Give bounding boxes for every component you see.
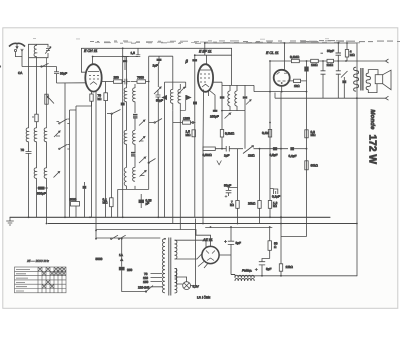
- junction J34: [148, 81, 150, 83]
- junction J40: [280, 216, 282, 218]
- wire bottom bus: [238, 275, 357, 277]
- bracket: [165, 81, 186, 83]
- coil L2a: [26, 128, 28, 142]
- wire az11 cathode top: [196, 230, 211, 247]
- resistor 7500: [137, 80, 146, 84]
- wire V3 top feed: [284, 43, 286, 70]
- core blob 2: [131, 153, 136, 156]
- svg-text:1MΩ: 1MΩ: [311, 63, 318, 67]
- capacitor 50uF: [226, 188, 238, 197]
- junction J14: [221, 110, 223, 112]
- capacitor grid top: [123, 60, 127, 62]
- wire AF line: [215, 148, 288, 150]
- wire x245: [244, 111, 246, 149]
- pilot lamp: [183, 282, 191, 290]
- junction J19: [122, 216, 124, 218]
- junction J9: [322, 60, 324, 62]
- wire top bus T1: [205, 43, 357, 276]
- wire V2 screen feed: [204, 43, 206, 55]
- junction J13: [269, 91, 271, 93]
- power transformer: [162, 238, 177, 296]
- ground: [7, 217, 14, 225]
- coil LO2b: [133, 130, 135, 144]
- wire bus B4: [206, 227, 273, 229]
- junction J28: [210, 226, 212, 228]
- pot R osc: [45, 94, 48, 104]
- tube V1 ECH11: [85, 64, 101, 91]
- capacitor 8uF no1: [224, 228, 234, 275]
- wire band line: [22, 58, 57, 67]
- capacitor 50uF cath blob: [304, 67, 308, 72]
- svg-text:8µF: 8µF: [266, 267, 272, 271]
- wire grid V1: [81, 48, 85, 72]
- svg-text:70: 70: [21, 148, 25, 152]
- transformer taps: [151, 273, 163, 286]
- wire anode row: [102, 81, 114, 83]
- wire V2 plate: [213, 82, 222, 110]
- coil L2c: [44, 128, 46, 142]
- tube V3 ECL11: [274, 70, 290, 86]
- svg-text:30pF: 30pF: [60, 72, 67, 76]
- wire top bus T2: [81, 47, 231, 49]
- wire x259 branch: [259, 149, 261, 224]
- terminal chevron out2: [386, 96, 389, 100]
- capacitor 8uF no2: [255, 259, 270, 276]
- switch S2a: [60, 119, 67, 123]
- tube V2 EBF11: [198, 55, 213, 92]
- coil T2b: [235, 85, 237, 110]
- svg-text:MΩ: MΩ: [311, 133, 317, 137]
- svg-text:100pF: 100pF: [210, 115, 219, 119]
- svg-text:Feldsp.: Feldsp.: [242, 269, 252, 273]
- antenna: [9, 43, 25, 46]
- switch S2b: [60, 145, 67, 149]
- svg-text:172 W: 172 W: [367, 135, 378, 165]
- wire x237 branch: [237, 149, 239, 224]
- svg-text:220-240: 220-240: [138, 285, 150, 289]
- svg-text:5060: 5060: [70, 198, 77, 202]
- junction J33: [269, 122, 271, 124]
- resistor 1M on y61: [311, 59, 319, 62]
- svg-text:1kΩ: 1kΩ: [294, 84, 300, 88]
- svg-text:β: β: [185, 59, 189, 64]
- trimmer T2 low: [225, 113, 231, 119]
- top speckle band: [33, 39, 400, 44]
- junction J18: [89, 216, 91, 218]
- junction J6: [194, 54, 196, 56]
- trimmer osc5: [140, 171, 147, 177]
- svg-text:kΩ: kΩ: [230, 203, 235, 207]
- junction J23: [202, 223, 204, 225]
- resistor 20k: [258, 201, 261, 209]
- junction J35: [122, 56, 124, 58]
- junction J5: [346, 42, 348, 44]
- trimmer osc3: [139, 137, 145, 143]
- svg-text:8µF: 8µF: [236, 241, 242, 245]
- potentiometer 1M arrow: [243, 146, 254, 154]
- junction J30: [164, 238, 166, 240]
- junction J15: [306, 91, 308, 93]
- resistor 60k: [305, 161, 308, 170]
- secondary HT: [175, 240, 177, 259]
- core arrow T1a: [162, 96, 166, 100]
- coil T1b: [178, 84, 180, 230]
- junction J24: [237, 223, 239, 225]
- text model name: [367, 110, 378, 165]
- resistor 12k: [279, 264, 282, 271]
- switch S4: [155, 119, 162, 123]
- junction J2: [204, 42, 206, 44]
- capacitor series: [122, 79, 130, 85]
- capacitor T2 sec: [243, 96, 248, 98]
- resistor col2: [35, 114, 38, 122]
- svg-text:0,5µF: 0,5µF: [270, 153, 278, 157]
- resistor 0.1M plate: [291, 59, 299, 62]
- wire col1: [28, 67, 30, 129]
- svg-text:0,1M: 0,1M: [262, 131, 269, 135]
- wire ground bus: [10, 216, 330, 218]
- svg-text:500pF: 500pF: [37, 192, 46, 196]
- junction J16: [28, 216, 30, 218]
- primary winding: [162, 239, 165, 293]
- resistor 5060: [71, 202, 80, 207]
- resistor R osc anode: [104, 93, 108, 101]
- svg-text:0,1µF: 0,1µF: [289, 154, 297, 158]
- core arrow T1b: [186, 96, 190, 100]
- wire chevron line 2: [275, 93, 386, 99]
- wire input box: [29, 44, 49, 57]
- junction J1: [122, 47, 124, 49]
- switch S3: [112, 110, 120, 114]
- resistor R cath: [90, 94, 93, 101]
- junction J11: [345, 60, 347, 62]
- loudspeaker: [368, 70, 391, 93]
- capacitor 500pF block: [38, 187, 45, 190]
- wire col2: [36, 58, 38, 128]
- trimmer C IF1: [154, 87, 161, 101]
- wire bus B2: [48, 223, 357, 225]
- resistor 2 on y61: [327, 59, 334, 62]
- svg-text:1µF: 1µF: [224, 154, 230, 158]
- coil L1: [34, 45, 37, 56]
- wire x270: [269, 61, 271, 217]
- resistor 7k: [236, 201, 239, 209]
- capacitor 0.1uF: [290, 147, 294, 150]
- junction J7: [269, 60, 271, 62]
- junction J32: [221, 148, 223, 150]
- terminal A1: [14, 49, 16, 51]
- junction J29: [95, 238, 97, 240]
- wire col3: [46, 58, 48, 128]
- resistor 50ohm: [268, 241, 271, 251]
- core blob: [133, 115, 138, 118]
- coil LO3a: [124, 144, 126, 189]
- IF transformer T2: [222, 48, 251, 110]
- svg-text:1250: 1250: [183, 117, 190, 121]
- resistor 4M: [345, 50, 348, 58]
- wire x306 column: [306, 61, 308, 217]
- capacitor 0.5uF: [273, 147, 277, 150]
- svg-text:150: 150: [143, 280, 148, 284]
- trimmer osc2: [139, 120, 145, 126]
- capacitor pi: [270, 189, 278, 195]
- coil L3b: [44, 168, 46, 178]
- wire x338 lower: [337, 61, 339, 98]
- capacitor 50pF: [321, 53, 342, 55]
- capacitor 1uF blob: [157, 59, 162, 61]
- capacitor 30pF: [54, 67, 59, 84]
- capacitor x323: [321, 71, 326, 74]
- trimmer C3: [54, 172, 60, 178]
- svg-text:6,3V: 6,3V: [193, 285, 200, 289]
- coil L3a: [34, 168, 36, 178]
- core: [169, 238, 171, 296]
- svg-text:60kΩ: 60kΩ: [311, 164, 319, 168]
- svg-text:5000: 5000: [96, 257, 103, 261]
- wire bus B3: [96, 229, 196, 231]
- junction J26: [230, 226, 232, 228]
- waveband table: [15, 259, 67, 293]
- capacitor AF coupling: [226, 146, 229, 152]
- svg-text:0,3MΩ: 0,3MΩ: [225, 132, 235, 136]
- svg-text:50pF: 50pF: [156, 99, 163, 103]
- svg-text:7500: 7500: [137, 76, 144, 80]
- tube V4 AZ11 rectifier: [198, 246, 219, 268]
- capacitor x338: [336, 71, 341, 74]
- svg-text:AZ 11: AZ 11: [202, 238, 213, 242]
- coil LO3b: [118, 144, 149, 217]
- wire x158: [157, 97, 159, 217]
- svg-text:50pF: 50pF: [327, 49, 334, 53]
- capacitor 0.25uF: [139, 200, 145, 204]
- switch S5: [149, 159, 156, 163]
- svg-text:MΩ: MΩ: [186, 133, 192, 137]
- svg-text:250: 250: [114, 76, 119, 80]
- wire under T1: [165, 82, 186, 223]
- wire V3 grid line: [245, 85, 307, 91]
- svg-text:0,1µF: 0,1µF: [272, 195, 280, 199]
- trimmer C1: [45, 47, 51, 54]
- svg-text:E BF 11: E BF 11: [199, 50, 212, 54]
- wire antenna drop: [16, 51, 23, 67]
- resistor cathode 1k: [288, 80, 307, 82]
- junction J27: [269, 226, 271, 228]
- junction J20: [157, 216, 159, 218]
- volume resistor 0.5M: [203, 147, 215, 150]
- resistor 250: [114, 80, 123, 84]
- junction J37: [356, 97, 358, 99]
- svg-text:MΩ: MΩ: [103, 201, 109, 205]
- resistor 0.3M diode load: [220, 130, 223, 138]
- wire mid right col: [149, 88, 154, 189]
- capacitor 30uF: [83, 186, 87, 189]
- tap selector: [146, 286, 153, 292]
- resistor 1.2k bias: [268, 201, 271, 209]
- junction J17: [64, 216, 66, 218]
- terminal chevron out1: [386, 59, 389, 63]
- resistor 1.5M: [192, 130, 195, 137]
- svg-text:50µF: 50µF: [224, 183, 231, 187]
- wire mains line: [96, 237, 160, 239]
- wire x323: [322, 61, 324, 98]
- junction J10: [337, 60, 339, 62]
- junction J4: [337, 42, 339, 44]
- svg-text:1,5: 1,5: [131, 51, 136, 55]
- tone switch: [341, 71, 348, 78]
- junction J22: [46, 223, 48, 225]
- junction J36: [92, 56, 94, 58]
- svg-text:12kΩ: 12kΩ: [286, 265, 294, 269]
- resistor 0.1M bottom: [110, 198, 114, 207]
- mains switch: [112, 235, 126, 239]
- resistor 1250: [183, 121, 191, 124]
- svg-text:E CH 11: E CH 11: [84, 49, 97, 53]
- svg-text:E CL 11: E CL 11: [266, 51, 279, 55]
- resistor 0.1M g3: [268, 130, 271, 138]
- junction J3: [284, 42, 286, 44]
- junction J8: [306, 60, 308, 62]
- svg-text:0,1MΩ: 0,1MΩ: [290, 55, 300, 59]
- wire lamp return: [175, 219, 196, 286]
- wire osc col: [122, 48, 124, 217]
- svg-text:LP. i ČSN: LP. i ČSN: [197, 296, 210, 300]
- svg-text:20kΩ: 20kΩ: [248, 202, 256, 206]
- cathode V mark: [217, 161, 222, 165]
- wire beta line: [195, 54, 232, 56]
- capacitor 70: [26, 152, 32, 154]
- coil LO2a: [124, 102, 126, 145]
- osc coil assembly: [118, 57, 149, 218]
- coil T2a: [228, 85, 230, 110]
- coil L2b: [34, 128, 36, 142]
- svg-text:µF: µF: [146, 202, 150, 206]
- trimmer C2: [54, 131, 60, 137]
- coil T1a: [170, 56, 172, 110]
- svg-text:Monde: Monde: [369, 110, 376, 131]
- svg-text:1MΩ: 1MΩ: [327, 63, 334, 67]
- svg-text:kΩ: kΩ: [273, 204, 278, 208]
- wire V1 top cap: [93, 48, 138, 64]
- wire pot return: [203, 90, 209, 224]
- svg-text:0,5MΩ: 0,5MΩ: [203, 153, 213, 157]
- wire V1 cathode down: [76, 92, 96, 239]
- junction J21: [269, 216, 271, 218]
- trimmer osc4: [139, 157, 146, 163]
- svg-text:MΩ: MΩ: [350, 53, 356, 57]
- svg-text:250: 250: [127, 268, 132, 272]
- wire sw row1: [57, 110, 77, 217]
- switch S1: [42, 63, 48, 66]
- coil LO1a: [123, 57, 129, 102]
- junction J38: [356, 223, 358, 225]
- svg-text:kΩ: kΩ: [98, 97, 103, 101]
- wire to osc: [57, 83, 86, 218]
- svg-text:1MΩ: 1MΩ: [248, 154, 255, 158]
- junction J31: [121, 238, 123, 240]
- wire sec to rectifier: [175, 240, 207, 247]
- wire az11 out: [219, 254, 231, 256]
- svg-text:1µF: 1µF: [153, 64, 159, 68]
- junction J25: [95, 230, 97, 232]
- resistor 0.3M: [305, 130, 308, 138]
- IF transformer T1: [162, 56, 190, 229]
- coil LO1b: [133, 84, 135, 113]
- trimmer T2: [246, 100, 251, 105]
- capacitor beta: [192, 59, 197, 61]
- secondary LT: [175, 269, 177, 294]
- capacitor 100pF det: [209, 90, 215, 110]
- junction J42: [261, 275, 263, 277]
- capacitor T2 primary: [220, 96, 225, 98]
- junction J41: [280, 223, 282, 225]
- output transformer: [354, 67, 371, 91]
- svg-text:25 — 2000 kHz: 25 — 2000 kHz: [26, 259, 49, 263]
- junction J12: [281, 91, 283, 93]
- junction J39: [280, 275, 282, 277]
- terminal A2: [21, 49, 23, 51]
- wire plate line y61: [270, 60, 386, 62]
